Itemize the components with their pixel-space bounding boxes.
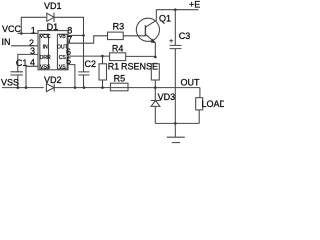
IC D1 inner left box bbox=[40, 34, 49, 69]
wire VCC to pin1 bbox=[18, 32, 39, 34]
svg-text:+: + bbox=[169, 38, 173, 45]
resistor R4 bbox=[110, 53, 126, 61]
wire VSS rail left bbox=[2, 87, 44, 89]
IC pin names right bbox=[57, 34, 69, 71]
svg-text:OUT: OUT bbox=[181, 77, 201, 87]
resistor R1 bbox=[99, 64, 107, 80]
wire R3 to base bbox=[123, 35, 145, 37]
junction ground node bbox=[174, 122, 177, 125]
transistor Q1 circle bbox=[136, 18, 159, 41]
wire pin8 bbox=[68, 34, 84, 36]
wire VCC up to VD1 rail bbox=[21, 17, 46, 33]
svg-text:IN: IN bbox=[2, 37, 11, 47]
wire pin4 down bbox=[26, 66, 38, 87]
svg-text:VCC: VCC bbox=[2, 24, 22, 34]
junction C3 top bbox=[174, 8, 177, 11]
diode VD2 bbox=[46, 84, 54, 92]
wire RSENSE bottom bbox=[154, 80, 156, 88]
junction C1-rail bbox=[17, 86, 20, 89]
wire pin3 down bbox=[18, 54, 38, 71]
svg-text:DRR: DRR bbox=[40, 55, 51, 61]
svg-text:VD3: VD3 bbox=[158, 92, 176, 102]
svg-text:VSS: VSS bbox=[1, 77, 19, 87]
wire pin7 step to R3 bbox=[68, 36, 108, 43]
IC D1 outer box bbox=[38, 31, 68, 70]
svg-text:1: 1 bbox=[31, 25, 36, 35]
transistor Q1 base bar bbox=[144, 25, 146, 36]
resistor RSENSE bbox=[151, 64, 159, 80]
wire rail VD2 to LOAD corner bbox=[54, 87, 200, 89]
capacitor C3 bbox=[170, 10, 182, 124]
diode VD3 bbox=[154, 88, 156, 101]
wire pin5 down bbox=[68, 65, 75, 88]
junction RSENSE-rail bbox=[154, 86, 157, 89]
svg-text:C2: C2 bbox=[85, 59, 97, 69]
wire IN to pin2 bbox=[11, 45, 38, 47]
wire R1 top bbox=[102, 56, 104, 64]
svg-text:R1: R1 bbox=[108, 62, 120, 72]
junction pin5-rail bbox=[74, 86, 77, 89]
junction pin8 node bbox=[82, 34, 85, 37]
resistor R5 bbox=[110, 83, 128, 91]
transistor Q1 emitter bbox=[145, 34, 155, 57]
wire VD1 cathode to pin8 net bbox=[54, 17, 84, 35]
svg-text:R4: R4 bbox=[112, 44, 124, 54]
svg-text:R5: R5 bbox=[114, 74, 126, 84]
capacitor C2 bbox=[78, 35, 89, 87]
wire R1 bottom bbox=[102, 80, 104, 88]
svg-text:+E: +E bbox=[189, 0, 200, 10]
svg-text:R3: R3 bbox=[113, 22, 125, 32]
transistor Q1 collector bbox=[145, 10, 156, 28]
junction C2-rail bbox=[83, 86, 86, 89]
IC D1 inner right box bbox=[57, 34, 67, 69]
svg-text:VD2: VD2 bbox=[44, 75, 62, 85]
transistor Q1 emitter arrow bbox=[151, 39, 156, 43]
capacitor C1 bbox=[11, 72, 24, 75]
ground bbox=[174, 123, 176, 137]
junction pin4-rail bbox=[25, 86, 28, 89]
svg-text:LOAD: LOAD bbox=[202, 99, 225, 109]
diode VD1 bbox=[47, 13, 54, 21]
svg-text:C3: C3 bbox=[179, 31, 191, 41]
svg-text:Q1: Q1 bbox=[159, 13, 171, 23]
junction R4-emitter node bbox=[154, 56, 157, 59]
svg-text:IN: IN bbox=[43, 45, 48, 51]
junction CS node bbox=[101, 55, 104, 58]
wire load bottom bbox=[198, 110, 200, 124]
wire top rail bbox=[156, 9, 198, 11]
wire R4 leads bbox=[103, 55, 156, 57]
wire bottom bbox=[155, 122, 199, 124]
wire pin6 to R4 node bbox=[68, 55, 103, 57]
svg-text:VSS: VSS bbox=[40, 65, 51, 71]
wire load top bbox=[199, 88, 201, 98]
node VCC junction bbox=[20, 32, 23, 35]
svg-text:VD1: VD1 bbox=[44, 1, 62, 11]
IC pin names left bbox=[40, 34, 51, 71]
junction R1-rail bbox=[101, 86, 104, 89]
svg-text:RSENSE: RSENSE bbox=[121, 62, 158, 72]
svg-text:D1: D1 bbox=[47, 22, 59, 32]
svg-text:VCC: VCC bbox=[40, 34, 51, 40]
resistor R3 bbox=[108, 32, 124, 40]
load box bbox=[196, 98, 203, 110]
svg-text:VB: VB bbox=[59, 34, 66, 40]
